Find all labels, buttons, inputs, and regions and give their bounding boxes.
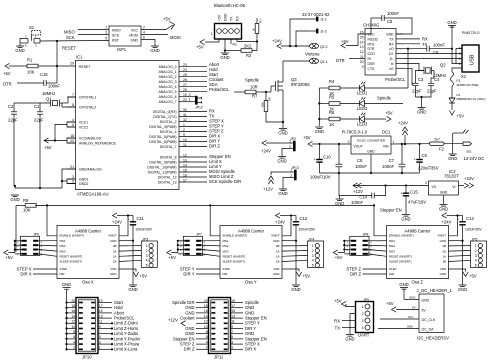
svg-text:+5V: +5V [303, 274, 311, 279]
svg-text:Stepper EN: Stepper EN [380, 208, 402, 213]
svg-text:MS2: MS2 [60, 244, 66, 248]
svg-text:JP10: JP10 [82, 355, 92, 360]
svg-text:Spindle: Spindle [377, 96, 392, 101]
svg-text:5x7: 5x7 [435, 138, 441, 142]
svg-text:GND: GND [386, 33, 394, 37]
svg-text:6: 6 [143, 36, 145, 40]
svg-text:1K: 1K [252, 28, 256, 32]
svg-text:R9: R9 [23, 198, 29, 203]
svg-text:SLEEP (INVERT): SLEEP (INVERT) [223, 260, 246, 264]
svg-text:RESET (INVERT): RESET (INVERT) [223, 255, 246, 259]
svg-text:IRF3205S: IRF3205S [291, 82, 310, 87]
svg-text:+5V: +5V [140, 274, 148, 279]
svg-text:100nF: 100nF [433, 43, 445, 48]
svg-text:Probe/SCL: Probe/SCL [385, 77, 406, 82]
svg-text:LED2: LED2 [357, 106, 368, 111]
wire source to gnd [282, 94, 284, 128]
svg-text:C8: C8 [357, 158, 363, 163]
svg-text:22pF: 22pF [427, 89, 437, 94]
svg-text:VCC2: VCC2 [79, 126, 88, 130]
svg-text:14: 14 [71, 314, 75, 318]
svg-text:4: 4 [146, 259, 148, 263]
connector JP3 [141, 237, 157, 267]
IC1 right pins ANALOG [159, 63, 207, 104]
svg-text:ANALOG_6: ANALOG_6 [159, 95, 177, 99]
supply +5V rail [308, 141, 313, 146]
svg-text:2: 2 [475, 249, 477, 253]
LED LED2 [357, 97, 368, 111]
svg-text:+: + [400, 191, 402, 195]
svg-text:+: + [128, 217, 130, 221]
crystal Q2 12MHz [424, 63, 446, 79]
ground jp2 [282, 149, 286, 156]
svg-text:RX: RX [389, 42, 394, 46]
svg-text:DIGITAL_3(PWM): DIGITAL_3(PWM) [149, 125, 176, 129]
svg-text:SDA: SDA [407, 325, 413, 329]
svg-text:2: 2 [459, 57, 461, 61]
ground Osa X [128, 285, 137, 292]
wire jp10 left bus [66, 289, 68, 349]
wire RESET net [40, 40, 109, 43]
svg-text:D-: D- [390, 57, 394, 61]
svg-text:R6: R6 [329, 110, 335, 115]
svg-text:+24V: +24V [112, 220, 122, 225]
svg-text:JP12: JP12 [195, 106, 203, 110]
svg-text:GND: GND [62, 282, 71, 287]
svg-text:22-27-2021-02: 22-27-2021-02 [302, 12, 330, 17]
svg-text:MISO: MISO [112, 29, 121, 33]
svg-text:C3: C3 [418, 77, 424, 82]
svg-text:20: 20 [204, 299, 208, 303]
svg-text:ANALOG_0: ANALOG_0 [159, 65, 177, 69]
IC1 right pins DIGITAL 0-7 [149, 108, 207, 149]
svg-text:+5V: +5V [44, 145, 52, 150]
svg-text:2B: 2B [113, 244, 117, 248]
svg-text:10K: 10K [27, 70, 35, 75]
svg-text:2: 2 [362, 312, 364, 316]
svg-text:VMOT: VMOT [438, 234, 447, 238]
svg-text:MS2: MS2 [223, 244, 229, 248]
wire gnd rail power [320, 172, 420, 174]
wire bt rx to divider [237, 39, 257, 42]
svg-text:DIGITAL_9(PWM): DIGITAL_9(PWM) [149, 161, 176, 165]
svg-text:2A: 2A [442, 249, 446, 253]
svg-text:8: 8 [72, 103, 74, 107]
resistor R2 2K2 [225, 42, 257, 59]
wire drain [282, 61, 284, 78]
svg-text:100nF: 100nF [387, 11, 399, 16]
svg-text:RX: RX [334, 318, 340, 323]
svg-text:11: 11 [231, 320, 235, 324]
op IC2 7812DT [425, 169, 459, 195]
wire vdd Osa X [119, 269, 136, 272]
svg-text:Rx: Rx [233, 43, 237, 47]
capacitor C4 22pF [422, 71, 441, 98]
svg-text:MOSI: MOSI [170, 35, 181, 40]
svg-text:GND: GND [367, 150, 375, 154]
svg-text:Coolant: Coolant [180, 316, 195, 321]
wire gnd Osa Z [449, 240, 463, 242]
svg-text:R5: R5 [329, 95, 335, 100]
svg-text:ISP1: ISP1 [117, 47, 127, 52]
svg-text:+5V: +5V [217, 14, 221, 21]
svg-text:A4988 Carrier: A4988 Carrier [238, 228, 265, 233]
svg-text:3: 3 [72, 175, 74, 179]
svg-text:DC/DC CONVERTER: DC/DC CONVERTER [357, 139, 385, 143]
svg-text:ANALOG_REFERENCE: ANALOG_REFERENCE [79, 142, 117, 146]
svg-text:10: 10 [71, 325, 75, 329]
svg-text:2K2: 2K2 [244, 44, 252, 49]
svg-text:Limit X-Leva: Limit X-Leva [114, 347, 138, 352]
svg-text:Q2-2: Q2-2 [320, 45, 328, 49]
wire IC1 gnd pins [67, 179, 76, 184]
supply +24V Osa Z [442, 213, 447, 218]
svg-text:DTR: DTR [336, 58, 345, 63]
svg-text:I2C_CLK: I2C_CLK [422, 318, 436, 322]
svg-text:4: 4 [475, 259, 477, 263]
svg-text:DIR: DIR [389, 272, 394, 276]
svg-text:2: 2 [348, 140, 350, 144]
wire ISP1 pin4 MOSI [141, 34, 168, 36]
svg-text:4: 4 [143, 31, 145, 35]
svg-text:2: 2 [143, 26, 145, 30]
svg-text:X1: X1 [461, 74, 467, 79]
svg-text:+5V: +5V [196, 45, 204, 50]
capacitor C6 100nF [403, 43, 452, 56]
ground under S1 [15, 46, 24, 53]
wire gnd/analog down [62, 169, 76, 188]
wire vmot Osa Y [282, 216, 291, 236]
svg-text:I2C_DA: I2C_DA [422, 328, 435, 332]
svg-text:47uF/16V: 47uF/16V [408, 200, 426, 205]
connector JP9 UART [356, 298, 374, 338]
svg-text:1B: 1B [442, 260, 446, 264]
fuse F1 [450, 72, 478, 87]
wire usb gnd pin4 [456, 49, 462, 64]
resistor R7 10R [234, 85, 271, 99]
svg-text:Q1: Q1 [46, 97, 52, 102]
CH340G pins [360, 31, 403, 71]
ground under ISP1 [150, 46, 159, 53]
svg-text:13: 13 [99, 314, 103, 318]
svg-text:STEP: STEP [223, 267, 231, 271]
svg-text:ENABLE (INVERT): ENABLE (INVERT) [223, 234, 248, 238]
svg-text:VIN: VIN [383, 145, 389, 149]
supply +5V Osa Y right [296, 272, 301, 277]
wire vmot Osa Z [449, 216, 458, 236]
svg-text:+24V: +24V [275, 220, 285, 225]
LED LED3 [357, 113, 368, 127]
wire led1 to probe/scl [364, 87, 408, 89]
capacitor C13 100uF/35V [457, 216, 482, 241]
svg-text:CRYSTAL1: CRYSTAL1 [79, 96, 96, 100]
diode D1 MBR0520 [449, 86, 486, 110]
svg-text:1: 1 [211, 32, 213, 36]
net labels digital block 2 [209, 154, 241, 184]
fuse F2 5x7 [430, 138, 464, 152]
wire SCK to ISP1 pin3 [78, 34, 109, 36]
svg-text:+: + [414, 158, 416, 162]
svg-text:MBR0520LT1G (SMC): MBR0520LT1G (SMC) [457, 97, 486, 101]
svg-text:5V: 5V [412, 306, 416, 310]
resistor R9 10K [16, 198, 36, 213]
svg-text:ANALOG_7: ANALOG_7 [159, 100, 177, 104]
svg-text:Spindle: Spindle [245, 78, 260, 83]
svg-text:DTR: DTR [3, 82, 12, 87]
ground jack [448, 154, 457, 161]
svg-text:STEP: STEP [60, 267, 68, 271]
svg-text:RS232: RS232 [368, 37, 378, 41]
svg-text:RX: RX [422, 37, 428, 42]
svg-text:5V: 5V [422, 309, 427, 313]
svg-text:UART: UART [358, 333, 370, 338]
connector J1 pin1 [308, 17, 327, 22]
svg-text:DIGITAL_1(TX): DIGITAL_1(TX) [153, 115, 176, 119]
svg-text:10: 10 [204, 325, 208, 329]
svg-text:R-78C5.0-1.0: R-78C5.0-1.0 [342, 130, 368, 135]
svg-text:F2: F2 [439, 147, 445, 152]
svg-text:GND: GND [399, 282, 408, 287]
wire reset vertical [56, 41, 58, 66]
svg-text:RESET (INVERT): RESET (INVERT) [389, 255, 412, 259]
connector JP7 [180, 233, 206, 257]
capacitor C5 100nF [365, 11, 412, 34]
svg-text:GND: GND [130, 39, 138, 43]
svg-text:2A: 2A [113, 249, 117, 253]
svg-text:MS3: MS3 [389, 249, 395, 253]
wire IC1 vcc bracket [67, 122, 76, 127]
supply +5V ch340 [341, 43, 346, 48]
supply +24V tap [404, 135, 406, 144]
svg-text:C5: C5 [387, 19, 393, 24]
svg-text:18: 18 [70, 134, 74, 138]
wire gnd leg power rail [338, 173, 341, 199]
svg-text:CTS: CTS [368, 67, 376, 71]
wire vdd Osa Z [449, 269, 466, 272]
svg-text:100uF/10V: 100uF/10V [310, 175, 331, 180]
wires JP7 to driver [171, 240, 220, 257]
svg-text:8: 8 [206, 330, 208, 334]
svg-text:GND: GND [440, 239, 446, 243]
svg-text:GND: GND [409, 296, 415, 300]
svg-text:GND1: GND1 [79, 178, 89, 182]
svg-text:+5V: +5V [168, 255, 176, 260]
svg-text:16: 16 [71, 309, 75, 313]
svg-text:ANALOG_1: ANALOG_1 [159, 70, 177, 74]
svg-text:7812DT: 7812DT [444, 174, 459, 179]
svg-text:7: 7 [231, 330, 233, 334]
wires JP8 to driver [338, 240, 387, 257]
svg-text:J1-1: J1-1 [320, 18, 327, 22]
svg-text:21: 21 [70, 165, 74, 169]
svg-text:1B: 1B [276, 260, 280, 264]
svg-text:R1: R1 [27, 58, 33, 63]
svg-text:+12V: +12V [168, 318, 178, 323]
svg-text:3: 3 [362, 319, 364, 323]
capacitor C1 22pF [34, 103, 44, 123]
wire stepper en bus [35, 204, 374, 206]
svg-text:+: + [291, 217, 293, 221]
svg-text:29: 29 [70, 62, 74, 66]
wire enable Osa X [47, 205, 57, 235]
svg-text:1: 1 [312, 244, 314, 248]
svg-text:DIGITAL_4: DIGITAL_4 [160, 130, 177, 134]
svg-text:MOSI: MOSI [129, 34, 138, 38]
wire ISP1 pin6 to GND [141, 40, 155, 47]
ground C15 [401, 215, 410, 222]
ground Osa Z [458, 285, 467, 292]
svg-text:ATMEGA168-AU: ATMEGA168-AU [77, 192, 109, 197]
svg-text:100nF: 100nF [382, 164, 394, 169]
ground jp13 [283, 178, 287, 189]
wire enable Osa Y [210, 205, 220, 235]
wire uart gnd [350, 314, 356, 335]
supply +24V vretena [277, 43, 282, 48]
svg-text:DIR Z: DIR Z [184, 347, 195, 352]
svg-text:+5V: +5V [385, 111, 393, 116]
svg-text:LED3: LED3 [357, 121, 368, 126]
wires coils JP4 [282, 246, 308, 262]
svg-text:+5V: +5V [303, 135, 311, 140]
ground i2c [403, 289, 405, 300]
svg-text:RTS: RTS [368, 42, 375, 46]
svg-text:TX: TX [229, 16, 233, 21]
svg-text:RX: RX [235, 16, 239, 21]
capacitor C3 22pF [412, 71, 424, 98]
svg-text:100uF/35V: 100uF/35V [136, 228, 153, 232]
svg-text:Osa X: Osa X [82, 280, 94, 285]
op J_I2C_HEADER_1 [417, 288, 453, 341]
svg-text:SM050-08 [TME]: SM050-08 [TME] [457, 83, 479, 87]
svg-text:JP11: JP11 [214, 355, 224, 360]
capacitor C16 [17, 66, 60, 89]
wires JP6 to driver [8, 240, 57, 257]
wire vdd Osa Y [282, 269, 299, 272]
connector JP11 [196, 298, 243, 360]
wire probe scl vertical [402, 48, 404, 50]
wire caps to gnd rail [13, 114, 15, 186]
svg-text:1: 1 [475, 244, 477, 248]
wire vmot Osa X [119, 216, 128, 236]
svg-text:+5V: +5V [3, 71, 11, 76]
capacitor C10 100uF/10V [310, 144, 331, 180]
supply +5V JP7 [167, 250, 172, 255]
wires step dir Osa Y [196, 268, 220, 270]
wire bt tx [230, 39, 232, 44]
svg-text:16: 16 [204, 309, 208, 313]
svg-text:DIGITAL_13: DIGITAL_13 [158, 181, 177, 185]
svg-text:4: 4 [73, 340, 75, 344]
resistor R4 1K [329, 79, 340, 96]
svg-text:12-24V DC: 12-24V DC [464, 156, 485, 161]
wire +24V rail to VIN [391, 143, 430, 145]
svg-text:RST: RST [112, 39, 119, 43]
capacitor C11 100uF/35V [128, 216, 153, 241]
svg-text:17: 17 [99, 304, 103, 308]
svg-text:DC1: DC1 [382, 130, 391, 135]
ground jp10 [63, 288, 71, 290]
svg-text:3: 3 [475, 254, 477, 258]
svg-text:1: 1 [231, 346, 233, 350]
svg-text:5: 5 [105, 37, 107, 41]
net labels jp10 [111, 300, 140, 352]
op CH340G body [365, 29, 396, 76]
svg-text:14: 14 [204, 314, 208, 318]
connector J1 pin2 [308, 29, 327, 34]
svg-text:DIGITAL_12: DIGITAL_12 [158, 176, 177, 180]
svg-text:JP7: JP7 [196, 233, 202, 237]
svg-text:+5V: +5V [5, 255, 13, 260]
supply +24V Osa Y [276, 213, 281, 218]
capacitor C12 100uF/35V [291, 216, 316, 241]
svg-text:+12V: +12V [353, 189, 363, 194]
svg-text:ANALOG_3: ANALOG_3 [159, 80, 177, 84]
svg-text:Probe/SCL: Probe/SCL [209, 87, 230, 92]
svg-text:R2: R2 [246, 53, 252, 58]
crystal Q1 16MHz [14, 91, 68, 107]
svg-text:MS3: MS3 [223, 249, 229, 253]
svg-text:17: 17 [231, 304, 235, 308]
svg-text:xO: xO [389, 67, 394, 71]
wire bt gnd [224, 39, 226, 53]
svg-text:1: 1 [290, 168, 292, 172]
svg-text:DIGITAL_7: DIGITAL_7 [160, 145, 177, 149]
svg-text:SCK: SCK [66, 35, 75, 40]
svg-text:8: 8 [73, 330, 75, 334]
supply +5V JP8 [333, 250, 338, 255]
capacitor C2 22pF [8, 103, 18, 123]
i2c pin wires [378, 296, 419, 329]
svg-text:19: 19 [231, 299, 235, 303]
svg-text:MS2: MS2 [389, 244, 395, 248]
op A4988 Carrier Osa X [57, 226, 119, 285]
svg-text:3: 3 [99, 340, 101, 344]
svg-text:+5V: +5V [341, 39, 349, 44]
svg-text:1: 1 [459, 62, 461, 66]
svg-text:DIR Y: DIR Y [183, 272, 194, 277]
svg-text:29K: 29K [261, 102, 265, 107]
svg-text:1A: 1A [113, 255, 117, 259]
svg-text:PN61729-S: PN61729-S [462, 31, 480, 35]
connector JP4 [308, 237, 324, 267]
svg-text:A4988 Carrier: A4988 Carrier [404, 228, 431, 233]
LED LED1 [357, 82, 368, 96]
supply +5V osa z area [0, 0, 1, 1]
svg-text:S1: S1 [29, 25, 35, 30]
wire D+ D- to USB [403, 53, 462, 55]
svg-text:C10: C10 [323, 155, 331, 160]
svg-text:10R: 10R [250, 85, 258, 90]
svg-text:Q2-1: Q2-1 [320, 60, 328, 64]
svg-text:+24V: +24V [398, 121, 408, 126]
svg-text:+5V: +5V [386, 301, 394, 306]
svg-text:11: 11 [99, 320, 103, 324]
ground led rail [315, 127, 324, 134]
wire bt +5V [205, 39, 219, 42]
svg-text:I2C_HEADERSV: I2C_HEADERSV [417, 336, 449, 341]
svg-text:5: 5 [146, 264, 148, 268]
svg-text:C16: C16 [40, 72, 48, 77]
wires coils JP5 [449, 246, 471, 262]
svg-text:18: 18 [204, 304, 208, 308]
connector JP6 [17, 233, 43, 257]
supply +5V Osa X right [133, 272, 138, 277]
wire crystal1 [68, 97, 76, 103]
connector bluetooth 4pin [211, 13, 242, 39]
svg-text:IC1: IC1 [76, 55, 83, 60]
connector JP5 [471, 237, 487, 267]
svg-text:220uF/35V: 220uF/35V [418, 166, 439, 171]
